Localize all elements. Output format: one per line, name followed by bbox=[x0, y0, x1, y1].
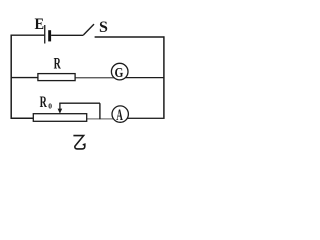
wire A to right bbox=[123, 117, 165, 119]
wire battery to switch bbox=[51, 34, 83, 36]
wire top right segment bbox=[95, 36, 165, 38]
svg-text:G: G bbox=[115, 65, 124, 80]
ammeter A bbox=[112, 105, 128, 123]
wire right vertical bbox=[163, 36, 165, 119]
wire bottom left segment bbox=[11, 117, 34, 119]
wire wiper vertical drop bbox=[99, 103, 101, 119]
svg-text:S: S bbox=[99, 19, 108, 36]
wire wiper horizontal bbox=[59, 102, 100, 104]
svg-text:R: R bbox=[40, 93, 47, 111]
wire R to G bbox=[75, 77, 117, 79]
svg-text:E: E bbox=[35, 16, 45, 33]
battery E bbox=[44, 25, 51, 44]
switch S arm bbox=[84, 24, 95, 35]
wire left vertical bbox=[10, 35, 12, 119]
svg-text:A: A bbox=[116, 105, 123, 123]
svg-text:0: 0 bbox=[48, 102, 52, 111]
rheostat R0 box bbox=[33, 114, 86, 122]
svg-text:R: R bbox=[54, 54, 61, 72]
wire R0 to A (gray) bbox=[87, 118, 119, 120]
galvanometer G bbox=[111, 63, 128, 80]
resistor R bbox=[38, 74, 75, 81]
rheostat wiper arrow bbox=[58, 103, 63, 114]
label Yi (figure B) bbox=[74, 136, 85, 149]
wire middle left segment bbox=[11, 77, 39, 79]
wire G to right bbox=[123, 77, 165, 79]
wire top left segment bbox=[11, 34, 45, 36]
label R0 bbox=[40, 93, 53, 111]
